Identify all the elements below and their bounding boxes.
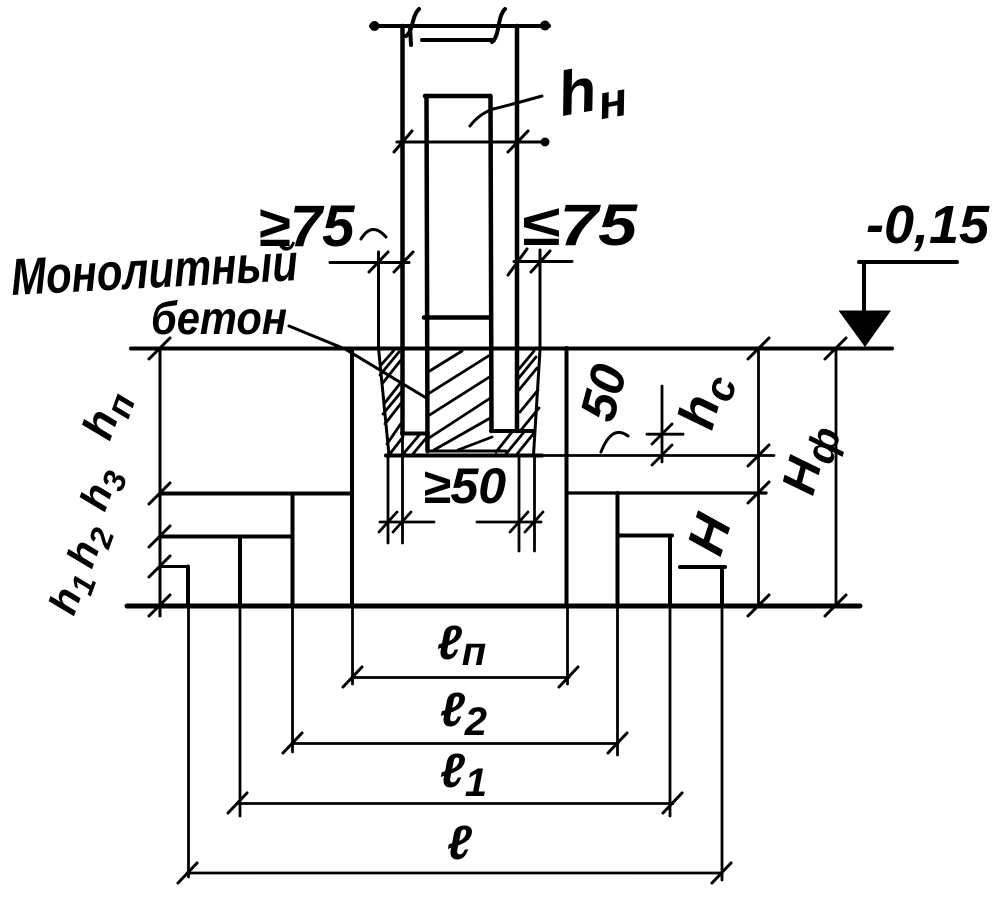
right step edge x722: [720, 567, 724, 880]
svg-text:бетон: бетон: [151, 292, 287, 344]
hн dimension line: [394, 131, 550, 152]
dimension <=75: [508, 193, 638, 348]
hatch middle block: [428, 351, 492, 450]
H and hc dimension line: [748, 338, 769, 616]
monolithic concrete block bottom: [427, 450, 506, 453]
svg-text:≥50: ≥50: [423, 458, 506, 514]
column right edge: [515, 26, 520, 431]
column bottom left branch: [402, 432, 428, 436]
left step edge x292: [291, 494, 295, 753]
svg-text:H: H: [676, 507, 743, 562]
column left edge: [400, 26, 405, 434]
left step line 1: [160, 492, 350, 496]
svg-text:h2: h2: [59, 518, 121, 575]
Hф dimension line: [825, 338, 846, 616]
label hн: [470, 50, 632, 136]
label Монолитный бетон: [10, 234, 428, 399]
svg-text:ℓ2: ℓ2: [440, 684, 487, 744]
pedestal right edge: [567, 348, 568, 684]
dimension l: [178, 817, 731, 883]
level mark -0,15: [839, 195, 991, 347]
dimension l1: [228, 745, 682, 813]
left step line 2: [160, 535, 290, 539]
left h dimension line: [149, 338, 170, 616]
socket wall left: [379, 348, 390, 455]
foundation bottom line: [127, 604, 860, 609]
svg-text:ℓ: ℓ: [447, 817, 472, 870]
right step edge x617: [616, 493, 620, 755]
svg-text:h3: h3: [72, 461, 134, 518]
right step line 3: [680, 565, 725, 569]
column break line top: [370, 9, 551, 45]
dimension >=50 bottom of socket: [379, 434, 543, 551]
svg-text:hс: hс: [667, 366, 745, 436]
hatch right gap: [518, 351, 539, 430]
right step line 2: [618, 534, 673, 538]
socket wall right: [534, 350, 541, 455]
hatch left wedge: [380, 348, 403, 455]
socket floor: [386, 454, 774, 458]
right step edge x670: [668, 536, 672, 817]
dimension 50 right side: [569, 358, 683, 465]
column opening: [424, 96, 492, 451]
svg-text:50: 50: [569, 358, 638, 426]
left step line 3: [160, 565, 188, 568]
right step line 1: [567, 491, 767, 494]
dimension >=75: [258, 194, 413, 348]
svg-text:-0,15: -0,15: [866, 195, 990, 255]
left step edge x240: [238, 537, 242, 816]
floor line (top of foundation): [131, 347, 892, 351]
pedestal left edge: [350, 350, 355, 684]
svg-text:h1: h1: [41, 565, 103, 622]
dimension lп: [343, 617, 578, 687]
svg-text:≤75: ≤75: [521, 193, 638, 258]
svg-text:ℓп: ℓп: [437, 617, 486, 674]
left step edge x188: [186, 567, 191, 878]
svg-text:hн: hн: [552, 50, 631, 136]
svg-text:Hф: Hф: [772, 418, 849, 501]
hatch under column: [404, 432, 534, 455]
svg-text:ℓ1: ℓ1: [440, 745, 487, 805]
column bottom right branch: [491, 429, 534, 433]
dimension l2: [283, 684, 627, 753]
svg-text:hп: hп: [73, 383, 143, 448]
